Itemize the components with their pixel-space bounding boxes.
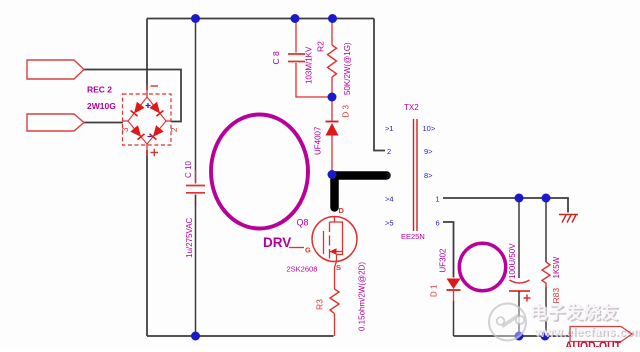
wire R3 to bottom rail: [334, 314, 336, 337]
wire secondary bottom rail: [454, 335, 572, 337]
transformer secondary winding: [459, 243, 505, 291]
wire Q8 source to R3: [335, 262, 337, 290]
label REC2 2W10G: [87, 85, 116, 112]
svg-text:REC 2: REC 2: [87, 85, 112, 95]
bridge pin stubs: [123, 85, 172, 156]
D3 triangle: [326, 123, 339, 136]
resistor R2: [316, 19, 353, 98]
wire TX2 pin6 to D1: [443, 222, 454, 278]
svg-text:G: G: [305, 246, 311, 255]
ground: [559, 215, 578, 223]
bridge diamond wiring: [128, 97, 166, 144]
R83 zigzag body: [542, 262, 550, 287]
resistor R83: [542, 198, 561, 336]
junction top rail / C8: [291, 14, 300, 23]
wire cap to secondary rail: [518, 291, 520, 336]
wire R83 to secondary rail: [545, 287, 547, 336]
junction output plus / R83: [542, 194, 551, 203]
svg-text:C 8: C 8: [271, 51, 281, 65]
svg-text:103M/1KV: 103M/1KV: [305, 46, 314, 84]
svg-text:UF4007: UF4007: [314, 126, 323, 155]
wire top rail to C8: [295, 19, 297, 53]
input connector P1 (upper banner): [27, 60, 84, 79]
TX2 core lines: [414, 119, 418, 231]
watermark logo circle: [489, 304, 526, 341]
svg-text:EE25N: EE25N: [401, 232, 425, 241]
junction secondary rail / cap: [515, 332, 524, 341]
svg-text:D: D: [339, 206, 345, 215]
thick bus horizontal: [335, 171, 387, 180]
svg-text:R2: R2: [316, 41, 326, 52]
bridge plus mark: [151, 149, 159, 157]
cap curved plate: [510, 280, 530, 283]
wire top rail to TX2 pin2: [374, 19, 385, 151]
junction top rail / C10: [191, 14, 200, 23]
wire top rail to R2: [331, 19, 333, 46]
C10 pin stubs: [195, 170, 197, 206]
bridge diode bottom-left: [131, 126, 145, 140]
output connector banner: [570, 327, 632, 342]
R2 zigzag body: [328, 45, 337, 77]
capacitor C (100U/50V): [508, 198, 531, 336]
D1 cathode bar: [447, 289, 461, 291]
Q8 gate bar: [323, 231, 325, 254]
svg-text:6: 6: [436, 219, 440, 228]
wire D3 anode to drain node: [331, 136, 333, 175]
D1 cathode stub: [453, 290, 455, 301]
R3 zigzag body: [330, 289, 339, 314]
wire node to D3 cathode: [331, 97, 333, 121]
thick wire drain node to TX2 pin3: [335, 176, 387, 208]
svg-text:100U/50V: 100U/50V: [508, 243, 517, 279]
resistor R3: [315, 262, 367, 336]
svg-text:R83: R83: [551, 288, 561, 304]
svg-text:D 3: D 3: [342, 105, 351, 118]
svg-text:2W10G: 2W10G: [87, 101, 116, 111]
wire left rail upper (bridge minus to top rail): [146, 19, 148, 91]
C8 plates: [288, 54, 305, 62]
svg-text:S: S: [336, 263, 341, 272]
svg-text:8>: 8>: [424, 171, 433, 180]
wire top rail: [147, 18, 374, 20]
junction C8 R2 D3 node: [328, 93, 337, 102]
watermark text elecfans: [530, 303, 640, 341]
wire input L to bridge pin2: [84, 70, 181, 122]
junction bottom rail / C10: [191, 332, 200, 341]
svg-text:D 1: D 1: [430, 284, 439, 297]
svg-text:>4: >4: [385, 195, 394, 204]
ground hatches: [562, 215, 576, 223]
transformer TX2: [385, 103, 440, 241]
svg-text:AUOD-OUT: AUOD-OUT: [565, 339, 622, 347]
Q8 body circle: [312, 217, 357, 262]
svg-text:3: 3: [121, 127, 130, 132]
wire C10 to bottom rail: [195, 195, 197, 337]
svg-text:电子发烧友: 电子发烧友: [530, 303, 619, 323]
svg-text:3: 3: [386, 171, 390, 180]
wire C8 to node R2/D3: [296, 63, 332, 97]
junction secondary rail / R83: [541, 332, 550, 341]
bridge blue plus mark: [146, 103, 151, 108]
ground top bar: [559, 214, 578, 216]
junction drain node: [328, 170, 337, 179]
wire D1 to secondary rail: [453, 301, 455, 336]
input connector P2 (lower banner): [27, 114, 84, 131]
MOSFET Q8: [289, 217, 357, 290]
bridge diode top-left: [131, 102, 145, 116]
svg-text:DRV: DRV: [263, 235, 291, 250]
bridge diode top-right: [150, 102, 164, 116]
D1 triangle: [447, 279, 461, 290]
svg-text:0.15ohm/2W(@2D): 0.15ohm/2W(@2D): [358, 262, 367, 331]
svg-text:1u/275VAC: 1u/275VAC: [185, 217, 194, 258]
wire input N to bridge pin3: [84, 122, 123, 124]
svg-text:UF302: UF302: [439, 248, 448, 273]
svg-text:C 10: C 10: [184, 161, 193, 178]
transformer primary winding DRV: [211, 115, 308, 229]
wire R2 to node: [331, 77, 333, 97]
svg-text:>5: >5: [385, 219, 394, 228]
label D G S: [305, 206, 345, 272]
Q8 substrate line: [330, 251, 343, 253]
wire left rail lower (bridge plus to bottom rail): [146, 150, 148, 336]
Q8 source lead: [337, 252, 343, 262]
bridge diode bottom-right: [150, 126, 164, 140]
wire TX2 pin1 to output plus / ground: [443, 198, 568, 213]
thick bus vertical: [330, 176, 339, 208]
svg-text:2: 2: [387, 147, 391, 156]
diode D3: [314, 97, 351, 174]
svg-text:>1: >1: [385, 124, 394, 133]
wire bottom rail primary: [147, 335, 334, 337]
D3 cathode bar: [326, 121, 339, 123]
svg-text:2SK2608: 2SK2608: [287, 265, 318, 274]
junction top rail / R2: [328, 14, 337, 23]
Q8 drain lead: [330, 217, 335, 223]
Q8 body connection: [335, 222, 343, 252]
svg-text:Q8: Q8: [297, 218, 309, 228]
svg-text:9>: 9>: [424, 147, 433, 156]
Q8 gate lead wire: [289, 247, 304, 249]
wire output node to cap: [518, 198, 520, 278]
junction output plus / cap: [515, 194, 524, 203]
svg-text:1K5W: 1K5W: [552, 256, 561, 278]
svg-text:10>: 10>: [423, 124, 436, 133]
cap straight plate: [509, 290, 530, 292]
capacitor C8: [271, 19, 332, 98]
capacitor C10: [184, 19, 205, 337]
cap plus mark: [524, 295, 531, 302]
Q8 substrate arrow: [330, 248, 337, 255]
svg-text:1: 1: [436, 195, 440, 204]
wire output node to R83: [545, 198, 547, 262]
svg-text:2: 2: [170, 127, 179, 132]
svg-text:TX2: TX2: [404, 103, 419, 112]
diode D1: [430, 248, 461, 336]
C10 plates: [186, 186, 205, 193]
bridge minus mark: [151, 85, 159, 87]
bridge dashed outline: [123, 94, 172, 145]
svg-text:R3: R3: [315, 299, 325, 310]
wire top rail to C10: [195, 19, 197, 184]
Q8 channel dashes: [329, 222, 331, 259]
svg-text:50K/2W(@1G): 50K/2W(@1G): [343, 42, 352, 95]
bridge rectifier REC2: [121, 85, 179, 156]
